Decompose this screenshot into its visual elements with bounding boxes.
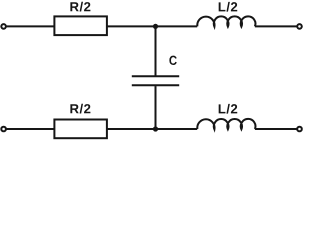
resistor R/2 (top) xyxy=(54,16,107,35)
terminal port 3 (bottom-left) xyxy=(1,127,6,132)
wire top-right lead xyxy=(255,25,297,27)
terminal port 4 (bottom-right) xyxy=(297,127,302,132)
wire bottom-left lead xyxy=(6,128,55,130)
label L/2 (bottom inductor) xyxy=(219,104,238,114)
label R/2 (bottom resistor) xyxy=(70,104,90,114)
terminal port 2 (top-right) xyxy=(297,24,302,29)
label C (capacitor) xyxy=(169,56,176,65)
node junction bottom xyxy=(153,126,158,131)
wire vertical lower (capacitor to node) xyxy=(155,86,157,129)
inductor L/2 (top) xyxy=(197,16,255,26)
capacitor C bottom plate xyxy=(132,84,179,86)
wire vertical upper (node to capacitor) xyxy=(155,26,157,75)
capacitor C top plate xyxy=(132,75,179,77)
inductor L/2 (bottom) xyxy=(197,119,255,129)
wire bottom middle (resistor to coil) xyxy=(107,128,197,130)
node junction top xyxy=(153,24,158,29)
terminal port 1 (top-left) xyxy=(1,24,6,29)
wire bottom-right lead xyxy=(255,128,297,130)
label L/2 (top inductor) xyxy=(219,2,238,12)
resistor R/2 (bottom) xyxy=(54,120,107,139)
label R/2 (top resistor) xyxy=(70,2,90,12)
wire top-left lead xyxy=(6,25,55,27)
wire top middle (resistor to coil) xyxy=(107,25,197,27)
